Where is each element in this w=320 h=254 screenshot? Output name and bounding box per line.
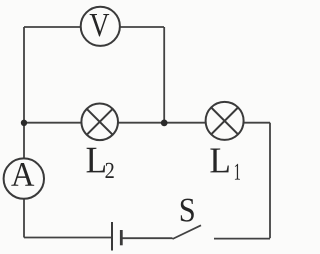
lamp L2 circle with X [81, 104, 118, 141]
voltmeter U-V circle [81, 7, 120, 46]
wire voltmeter drop vertical [163, 27, 165, 123]
label L1 subscript 1 [235, 164, 240, 180]
wire left rail vertical [23, 27, 25, 238]
wire bottom right segment [214, 238, 270, 240]
switch S lever [173, 225, 202, 239]
node left junction dot [21, 120, 27, 126]
wire top branch horizontal [24, 26, 164, 28]
wire right rail vertical [269, 123, 271, 239]
label L2 letter L [87, 148, 105, 173]
label S switch [181, 199, 194, 222]
battery long plate [111, 222, 113, 251]
wire bottom left segment [24, 237, 111, 239]
node right junction dot [161, 120, 168, 127]
lamp L1 circle with X [206, 102, 244, 140]
voltmeter V letter [90, 14, 110, 37]
label L1 letter L [210, 149, 228, 173]
label L2 subscript 2 [105, 163, 113, 178]
battery short plate [120, 230, 123, 245]
ammeter U-A circle [4, 158, 44, 198]
wire middle horizontal [24, 122, 270, 124]
wire bottom middle segment [123, 237, 173, 239]
ammeter A letter [11, 163, 34, 186]
